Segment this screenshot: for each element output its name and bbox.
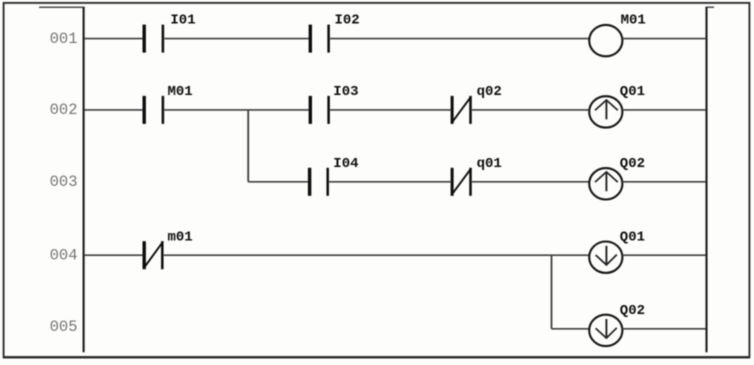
contact m01 (NC) — [144, 229, 193, 269]
svg-text:M01: M01 — [168, 84, 193, 100]
contact q02 (NC) — [452, 84, 502, 124]
svg-text:I03: I03 — [333, 84, 358, 100]
svg-text:q02: q02 — [477, 84, 502, 100]
contact M01 (NO) — [144, 84, 193, 124]
svg-text:003: 003 — [50, 173, 78, 191]
top header stub left — [39, 6, 85, 8]
rung number 001 — [50, 30, 78, 48]
wire rung3 branch to I04 — [248, 181, 309, 183]
wire rung2 coil to right rail — [622, 109, 705, 111]
wire rung3 q01 to coil Q02 — [472, 181, 590, 183]
wire rung5 branch to coil Q02 — [552, 328, 590, 330]
wire rung1 I02 to coil M01 — [330, 38, 589, 40]
contact I01 (NO) — [144, 13, 195, 53]
svg-text:I01: I01 — [170, 13, 195, 29]
wire rung1 coil to right rail — [622, 38, 705, 40]
contact I03 (NO) — [310, 84, 358, 124]
rung number 003 — [50, 173, 78, 191]
wire rung5 coil to right rail — [622, 328, 705, 330]
wire rung3 coil to right rail — [622, 181, 705, 183]
coil M01 — [589, 13, 646, 57]
wire rung2 M01 to I03 (through branch node) — [164, 109, 308, 111]
wire rung2 I03 to q02 — [330, 109, 451, 111]
svg-text:Q02: Q02 — [620, 156, 645, 172]
svg-text:002: 002 — [50, 101, 78, 119]
svg-text:q01: q01 — [477, 156, 502, 172]
wire rung1 I01 to I02 — [164, 38, 308, 40]
wire rung4 rail to m01 — [85, 254, 143, 256]
wire rung3 I04 to q01 — [329, 181, 451, 183]
coil Q02 set (up arrow) — [589, 156, 645, 200]
rung number 004 — [50, 246, 78, 264]
wire rung4 coil to right rail — [622, 254, 705, 256]
branch wire rung2 to rung3 — [247, 110, 249, 182]
svg-text:Q01: Q01 — [620, 229, 645, 245]
contact I02 (NO) — [310, 13, 359, 53]
coil Q01 reset (down arrow) — [589, 229, 645, 273]
right power rail — [705, 7, 707, 352]
svg-text:I04: I04 — [333, 156, 358, 172]
wire rung2 rail to M01 contact — [85, 109, 143, 111]
rung number 002 — [50, 101, 78, 119]
coil Q02 reset (down arrow) — [589, 303, 645, 346]
branch wire rung4 to rung5 — [551, 255, 553, 329]
top header stub right — [706, 6, 715, 8]
left power rail — [83, 7, 85, 352]
wire rung1 rail to I01 — [85, 38, 143, 40]
wire rung2 q02 to coil Q01 — [472, 109, 590, 111]
contact q01 (NC) — [452, 156, 502, 196]
svg-text:005: 005 — [50, 318, 78, 336]
svg-text:M01: M01 — [621, 13, 646, 29]
wire rung4 m01 to coil Q01 (through branch node) — [164, 254, 590, 256]
svg-text:004: 004 — [50, 246, 78, 264]
svg-text:m01: m01 — [168, 229, 193, 245]
svg-text:Q02: Q02 — [620, 303, 645, 319]
svg-text:I02: I02 — [335, 13, 360, 29]
svg-text:Q01: Q01 — [620, 84, 645, 100]
svg-text:001: 001 — [50, 30, 78, 48]
coil Q01 set (up arrow) — [589, 84, 645, 128]
rung number 005 — [50, 318, 78, 336]
contact I04 (NO) — [310, 156, 359, 196]
